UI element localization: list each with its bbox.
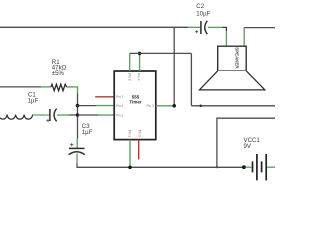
wire: pin 2 feed: [78, 114, 99, 116]
svg-text:Pin 7: Pin 7: [116, 95, 123, 99]
wire: C1 right lead (green): [57, 114, 69, 116]
node: battery left junction: [242, 165, 246, 169]
IC U1: 555 timer: [114, 71, 156, 140]
capacitor C2: [195, 3, 210, 34]
wire: V+ lower horizontal out right: [191, 105, 275, 107]
resistor R1: [51, 59, 67, 91]
wire: speaker left pin stub (green): [225, 31, 227, 46]
wire: pin 5 stub down (red): [138, 140, 140, 160]
wire: V+ vertical: [190, 53, 192, 105]
wire: pin 2 lead (green): [98, 114, 114, 116]
speaker SP1: [199, 46, 265, 90]
node: bus / C1 / pin2 junction: [76, 113, 80, 117]
wire: pin 7 stub (red): [95, 96, 114, 98]
wire: pin 6 feed: [78, 105, 97, 107]
svg-text:1µF: 1µF: [82, 129, 93, 136]
wire: C3 bottom lead (green): [76, 154, 78, 164]
wire: pin 3 output lead: [156, 105, 174, 107]
svg-text:Pin 1: Pin 1: [128, 130, 132, 137]
svg-text:9V: 9V: [244, 143, 252, 150]
wire: C3 corner to rail: [77, 164, 79, 168]
node: bus / pin6 junction: [76, 104, 80, 108]
svg-text:Pin 4: Pin 4: [136, 73, 140, 80]
svg-text:Pin 8: Pin 8: [127, 73, 131, 80]
wire: corner to speaker left pin: [223, 27, 227, 31]
wire: output vertical to top rail: [173, 27, 175, 106]
wire: pin 6 lead (green): [96, 105, 114, 107]
wire: pin 1 stub down: [129, 140, 131, 168]
capacitor C3: [69, 123, 93, 155]
wire: V+ horizontal: [130, 52, 192, 54]
svg-text:SPEAKER: SPEAKER: [234, 47, 239, 69]
wire: top-right exit: [244, 27, 275, 29]
wire: ground rail: [77, 166, 244, 168]
wire: C1 to bus: [69, 114, 78, 116]
wire: mid-right net out: [217, 118, 275, 167]
wire: battery right lead out: [267, 166, 275, 168]
wire: speaker right pin stub up (green): [243, 28, 245, 46]
wire: green lead into C2 left: [188, 26, 200, 28]
svg-text:Pin 2: Pin 2: [116, 113, 123, 117]
node: small node on V+ run: [199, 104, 202, 107]
svg-text:C2: C2: [196, 3, 204, 10]
wire: inductor to C1: [33, 114, 50, 116]
svg-text:10µF: 10µF: [196, 11, 210, 18]
svg-text:Pin 6: Pin 6: [116, 104, 123, 108]
wire: R1 right to vertical bus: [67, 87, 78, 94]
node: rail tee knot: [216, 166, 218, 168]
svg-text:±5%: ±5%: [52, 70, 65, 77]
node: pin1 / rail junction: [128, 166, 132, 170]
wire: top output rail: [0, 26, 188, 28]
svg-text:1µF: 1µF: [28, 98, 39, 105]
wire: battery left lead: [246, 166, 252, 168]
wire: C2 right lead (green): [208, 26, 223, 28]
node: pin3 / output junction: [172, 104, 176, 108]
capacitor C1: [28, 92, 57, 123]
battery VCC1: [253, 154, 267, 180]
wire: pin 8 stub up: [129, 53, 131, 71]
wire: left vertical bus down to C3: [77, 94, 79, 139]
node: pin4 / V+ junction: [138, 52, 142, 56]
svg-text:Timer: Timer: [129, 100, 141, 105]
wire: pin 4 stub up: [139, 53, 141, 71]
svg-text:Pin 5: Pin 5: [138, 130, 142, 137]
wire: R1 left lead (green): [41, 86, 51, 88]
inductor L1: [0, 115, 33, 120]
svg-text:Pin 3: Pin 3: [147, 104, 154, 108]
wire: R1 left feed: [0, 86, 41, 88]
